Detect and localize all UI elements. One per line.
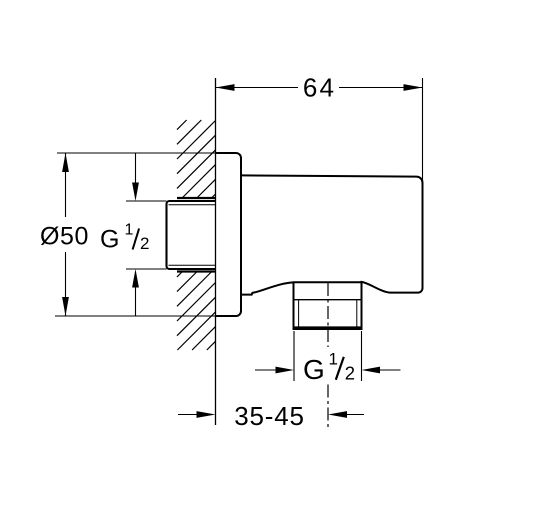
outlet dim extension left xyxy=(293,331,295,381)
wall hatch lower xyxy=(177,272,216,351)
outlet centerline lower xyxy=(327,385,329,429)
dim 64 line left segment xyxy=(216,87,299,89)
svg-text:1: 1 xyxy=(329,350,338,369)
svg-text:35-45: 35-45 xyxy=(234,401,305,431)
svg-text:64: 64 xyxy=(303,73,336,103)
dim 64 extension line right xyxy=(422,78,424,180)
svg-text:G: G xyxy=(100,226,119,254)
dim D50 arrow top xyxy=(62,153,69,172)
dim 35-45 line right with arrow xyxy=(328,411,364,418)
outlet dim arrow left xyxy=(255,367,294,374)
dim 64 arrow right xyxy=(404,84,423,91)
outlet thread line left xyxy=(298,300,300,327)
dim 35-45 line left with arrow xyxy=(178,411,216,418)
dim D50 line lower segment xyxy=(65,252,67,316)
nipple thread line top xyxy=(169,204,216,206)
svg-text:2: 2 xyxy=(345,363,355,384)
outlet thread line right xyxy=(356,300,358,327)
wall hole edge bottom xyxy=(177,270,216,272)
wall face line xyxy=(215,78,217,425)
wall hatch upper xyxy=(177,120,216,198)
escutcheon flange xyxy=(216,153,242,316)
outlet dim extension right xyxy=(361,331,363,381)
body outline xyxy=(241,175,423,294)
dim D50 extension line bottom xyxy=(55,315,216,317)
nipple dim arrow top xyxy=(132,153,139,201)
nipple thread line bottom xyxy=(169,264,216,266)
nipple dim arrow bottom xyxy=(132,269,139,316)
outlet bottom bold edge xyxy=(293,326,363,330)
dim 64 line right segment xyxy=(339,87,423,89)
outlet left edge xyxy=(293,282,295,329)
svg-text:2: 2 xyxy=(140,234,149,253)
wall hole edge top xyxy=(177,197,216,199)
pipe nipple body xyxy=(167,201,216,269)
label G 1/2 bottom xyxy=(303,350,355,386)
outlet mid line xyxy=(294,299,362,301)
outlet right edge xyxy=(361,282,363,329)
dim D50 arrow bottom xyxy=(62,297,69,316)
nipple dim extension bottom xyxy=(126,268,167,270)
outlet centerline upper xyxy=(327,283,329,347)
svg-text:Ø50: Ø50 xyxy=(40,223,89,251)
label G 1/2 left xyxy=(100,222,149,254)
svg-text:1: 1 xyxy=(125,222,134,239)
nipple dim extension top xyxy=(126,200,167,202)
dim 64 arrow left xyxy=(216,84,235,91)
outlet dim arrow right xyxy=(362,367,401,374)
svg-text:G: G xyxy=(303,354,325,385)
dim D50 line upper segment xyxy=(65,153,67,217)
dim D50 extension line top xyxy=(57,152,216,154)
